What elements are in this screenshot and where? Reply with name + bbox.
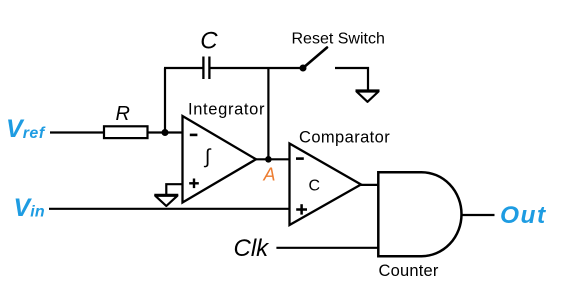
wire node A (integrator output to comparator) [256, 158, 290, 160]
svg-text:Counter: Counter [379, 262, 439, 280]
op-amp comparator U2 triangle [290, 144, 362, 226]
op-amp integrator U1 triangle [183, 116, 257, 203]
svg-text:Comparator: Comparator [299, 129, 390, 147]
wire Clk to AND gate [276, 247, 378, 249]
wire AND gate output [461, 214, 494, 216]
wire feedback right vertical (node A to capacitor) [267, 68, 269, 159]
junction dot at R output / feedback [162, 129, 169, 136]
junction dot node A [265, 156, 272, 163]
wire Vref input [50, 131, 104, 133]
wire capacitor to reset switch [210, 67, 304, 69]
wire integrator plus input to ground [166, 184, 182, 195]
pin minus (integrator inverting input) [190, 134, 198, 137]
wire Vin to comparator plus input [49, 208, 290, 210]
pin minus (comparator inverting input) [296, 157, 304, 160]
pin plus (integrator non-inverting input) [189, 179, 199, 189]
wire resistor to integrator inverting input [148, 131, 183, 133]
svg-text:A: A [263, 165, 276, 185]
AND gate (counter) [378, 172, 461, 256]
svg-text:Out: Out [500, 202, 547, 229]
ground (reset switch) [356, 91, 380, 102]
wire switch throw to ground [335, 68, 368, 90]
capacitor C plates [202, 57, 204, 80]
pin plus (comparator non-inverting input) [296, 204, 307, 214]
svg-text:C: C [200, 28, 218, 55]
wire comparator output to AND gate [361, 184, 378, 186]
svg-text:C: C [309, 177, 321, 194]
wire feedback left vertical [164, 68, 166, 133]
junction dot at switch pole [300, 65, 307, 72]
svg-text:Reset Switch: Reset Switch [292, 30, 385, 47]
switch lever (reset switch open) [303, 48, 327, 69]
resistor R [104, 126, 148, 138]
ground (integrator non-inverting input) [154, 195, 178, 206]
svg-text:Clk: Clk [234, 235, 271, 262]
wire feedback top left to capacitor [164, 67, 203, 69]
svg-text:Integrator: Integrator [188, 100, 265, 118]
svg-text:R: R [116, 103, 130, 125]
